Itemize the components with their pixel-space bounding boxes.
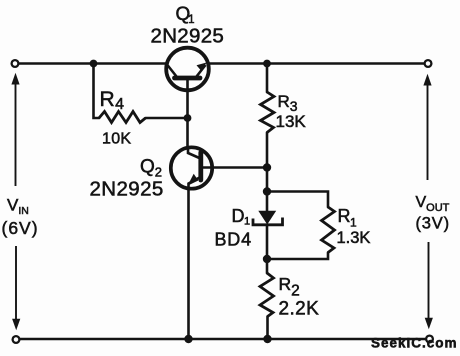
svg-text:1.3K: 1.3K	[337, 229, 371, 247]
wire top rail right	[209, 62, 425, 65]
wire bottom rail	[20, 338, 426, 341]
svg-text:VOUT: VOUT	[416, 194, 450, 214]
wire R3 bottom	[266, 133, 269, 168]
svg-text:13K: 13K	[276, 112, 307, 131]
svg-text:10K: 10K	[102, 131, 131, 148]
svg-text:VIN: VIN	[7, 196, 29, 217]
junction dot Q2 emitter / bottom rail	[184, 335, 192, 343]
resistor R2	[260, 273, 274, 317]
wire R3 top	[266, 64, 269, 93]
terminal top-left	[12, 60, 19, 67]
wire R2 top	[266, 259, 269, 273]
junction dot D1/R1 bottom node	[263, 255, 271, 263]
diode D1 zener BD4	[253, 211, 283, 225]
wire R1 top branch	[267, 192, 328, 208]
svg-text:R1: R1	[338, 206, 358, 230]
junction dot D1/R1 top node	[263, 187, 271, 195]
junction dot R2 / bottom rail	[263, 335, 271, 343]
transistor Q1	[166, 48, 209, 91]
Vin arrow up head	[11, 73, 20, 331]
svg-text:R4: R4	[100, 88, 125, 113]
wire Q1 base down	[186, 80, 189, 118]
wire top rail left	[19, 62, 167, 65]
resistor R3	[261, 92, 275, 133]
transistor Q2	[171, 147, 212, 189]
Vout arrow up head	[423, 74, 433, 329]
terminal bottom-right	[426, 336, 433, 343]
svg-text:2N2925: 2N2925	[151, 25, 225, 48]
junction dot Q1 base / R4	[184, 114, 192, 122]
wire R2 bottom	[266, 317, 269, 340]
wire R1 bottom branch	[267, 253, 328, 260]
terminal bottom-left	[13, 336, 20, 343]
svg-text:(6V): (6V)	[2, 218, 39, 238]
svg-text:R2: R2	[279, 274, 300, 300]
wire D1 anode	[266, 192, 269, 213]
terminal top-right	[425, 60, 432, 67]
resistor R4	[99, 112, 146, 123]
svg-text:BD4: BD4	[215, 230, 252, 250]
wire Q2 emitter to bottom rail	[187, 188, 190, 339]
wire R4 to base node	[146, 117, 188, 120]
wire node to D1 node	[266, 168, 269, 192]
wire base node to Q2 collector	[186, 118, 189, 147]
svg-text:D1: D1	[232, 206, 251, 228]
svg-text:R3: R3	[278, 92, 298, 114]
junction dot R3/top rail	[263, 60, 271, 68]
wire R4 left branch	[94, 64, 100, 118]
svg-text:SeekIC.com: SeekIC.com	[371, 336, 458, 351]
wire Q2 base to divider node	[201, 166, 267, 169]
svg-text:2N2925: 2N2925	[90, 178, 164, 201]
resistor R1	[322, 207, 335, 253]
junction dot Q2 base node	[263, 163, 271, 171]
Vin arrow down head	[15, 246, 17, 321]
svg-text:Q2: Q2	[140, 157, 162, 180]
svg-text:2.2K: 2.2K	[279, 298, 320, 319]
wire D1 cathode	[266, 225, 269, 260]
svg-text:Q1: Q1	[176, 4, 195, 26]
junction dot R4/top rail	[90, 60, 98, 68]
svg-text:(3V): (3V)	[416, 215, 450, 233]
Vout arrow down head	[428, 242, 430, 320]
